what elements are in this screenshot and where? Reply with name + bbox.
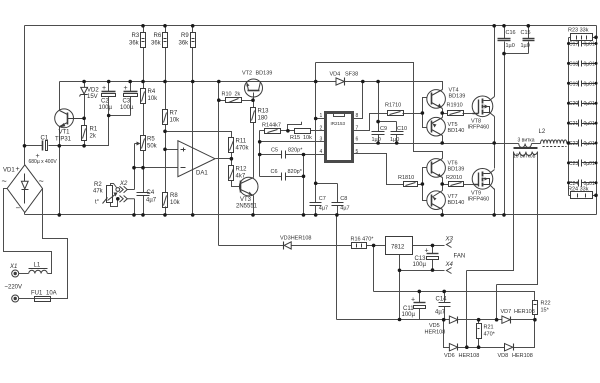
svg-text:X2: X2 [119,181,128,187]
wire R17 to VT4/VT5 bases [403,98,427,128]
node C5 right [302,153,306,157]
svg-text:1µ0: 1µ0 [521,43,530,49]
wire R6 leads [165,26,167,82]
node +15 C2 [107,80,111,84]
svg-text:C5: C5 [271,148,278,154]
capacitor C2 [102,92,116,97]
svg-text:C9: C9 [380,126,387,132]
svg-text:VT1: VT1 [59,130,71,136]
svg-text:+: + [102,85,106,92]
svg-text:VD1: VD1 [3,168,15,174]
wire pin5 jog to R18 [353,154,404,185]
svg-text:IRFP460: IRFP460 [468,125,490,131]
capacitor C23 [569,160,597,167]
wire R7 to R11 [166,132,232,138]
svg-text:~: ~ [2,176,7,186]
wire doubler bottom line [444,320,535,348]
svg-text:36k: 36k [151,41,162,47]
wire R7/R8 chain [165,82,167,215]
wire VB to C9/C10 bracket [379,82,397,132]
wire bridge bottom to ground rail [24,213,26,215]
resistor R6 [163,33,168,48]
inductor L1 [29,270,48,273]
svg-text:4µ7: 4µ7 [340,206,349,212]
wire R14 left vertical [260,131,265,177]
node doubler sec left [465,345,469,349]
svg-text:C21: C21 [569,121,578,127]
node Vcc pin1 [314,80,318,84]
svg-text:C6: C6 [271,169,278,175]
node R10 left [217,98,221,102]
transistor VT3 [239,177,258,196]
svg-text:820p*: 820p* [288,148,303,154]
wire secondary left / jog to doubler [467,152,514,348]
node bank C17 left [567,42,570,45]
svg-text:X1: X1 [9,264,17,270]
wire +15 to VD3 vertical x219 [218,82,220,246]
svg-text:4µ7: 4µ7 [435,310,446,316]
inductor L2 core dashes [543,146,567,148]
svg-text:100µ: 100µ [413,262,427,268]
node R24 right [594,194,598,198]
svg-text:BD140: BD140 [448,128,465,134]
svg-text:0µ01: 0µ01 [584,81,595,87]
wire right-side rail down [596,26,598,215]
svg-text:10A: 10A [46,291,57,297]
zener diode VD2 [80,87,88,96]
wire R22 bottom lead [534,315,536,320]
diode VD3 [284,242,292,250]
resistor R12 [229,166,234,181]
wire VT9 source [494,189,496,215]
wire VT3 emitter [253,196,255,215]
thermo mark of R2 [103,198,108,204]
node top rail VT8 drain [492,24,496,28]
svg-text:0µ01: 0µ01 [584,161,595,167]
svg-text:470k: 470k [236,146,250,152]
wire ground link to doubler [336,215,338,320]
svg-text:VT3: VT3 [240,197,252,203]
svg-text:VD8: VD8 [498,353,509,359]
wire R2 bottom lead [111,199,118,207]
node C1 left [23,144,27,148]
node VB pin8 [361,80,365,84]
svg-text:+: + [16,166,20,173]
svg-text:~: ~ [39,176,44,186]
node 7812 gnd bottom [398,318,402,322]
wire VT7 emitter [442,185,444,191]
node bank C22 right [595,142,598,145]
wire R19 leads [443,113,473,115]
wire VT1 collector [59,82,61,111]
svg-text:47k: 47k [93,189,104,195]
svg-text:0µ01: 0µ01 [584,42,595,48]
node VS L2 C22 [567,141,571,145]
svg-text:10 витков: 10 витков [513,154,536,160]
capacitor C9 [372,132,385,135]
svg-text:HER108: HER108 [512,353,533,359]
wire VT8 drain [494,26,496,97]
wire VT1 emitter [59,127,61,146]
svg-text:1µ0: 1µ0 [390,137,399,143]
svg-text:IRFP460: IRFP460 [468,197,490,203]
svg-text:180: 180 [258,116,269,122]
wire C13 leads [432,246,434,271]
node VS VT5 [440,141,444,145]
svg-text:R24 33k: R24 33k [568,187,589,193]
resistor R16 [352,243,367,249]
wire ground rail [25,214,597,216]
capacitor C21 [569,120,597,127]
wire ground drop x59 [59,146,61,215]
svg-text:L1: L1 [34,263,41,269]
svg-text:10k: 10k [170,200,181,206]
svg-text:6: 6 [356,136,359,142]
wire R14 to R15 [281,130,295,132]
transistor VT7 [427,191,446,210]
node VD3 R16 7812 [372,244,376,248]
node doubler R21 bottom [477,345,481,349]
svg-text:1µ0: 1µ0 [372,137,381,143]
wire R4/R5/C4 chain [143,82,145,215]
wire VT3 collector / R13 [253,101,255,178]
resistor R14 [265,129,281,134]
capacitor C13 [427,254,439,260]
svg-text:2N5551: 2N5551 [236,204,258,210]
capacitor C10 [391,132,404,135]
svg-text:VD5: VD5 [429,323,440,329]
svg-text:2: 2 [320,125,323,131]
node pin1 line [314,117,318,121]
svg-text:R10: R10 [222,92,232,98]
svg-text:100µ: 100µ [99,105,113,111]
svg-text:0µ01: 0µ01 [584,141,595,147]
diode VD8 [505,344,514,351]
resistor R11 [229,138,234,153]
wire doubler top line [337,319,535,321]
node top rail R9 [191,24,195,28]
svg-text:C17: C17 [569,42,578,48]
wire secondary right / jog to doubler [497,152,538,320]
wire DA1 output [216,158,232,160]
svg-text:10k: 10k [148,96,159,102]
svg-text:BD139: BD139 [448,167,465,173]
wire 7812 output / X3 [413,245,445,247]
node bank C18 left [567,62,570,65]
wire L1 to X1 [19,273,29,275]
wire bridge AC right to fuse [19,189,68,299]
transistor VT5 [427,117,446,136]
resistor R3 [141,33,146,48]
transistor VT6 [427,159,446,178]
IC IR2153 [326,113,353,162]
svg-text:C23: C23 [569,161,578,167]
connector X4 chevron [447,268,452,274]
node gnd C16 [502,213,506,217]
svg-text:VD3HER108: VD3HER108 [280,236,312,242]
op-amp DA1 [178,141,215,177]
svg-text:100µ: 100µ [402,312,416,318]
node bank C23 left [567,161,570,164]
svg-text:7: 7 [356,125,359,131]
wiper arrow of R2 [114,193,118,197]
svg-text:C19: C19 [569,81,578,87]
connector X2 socket circle [116,188,120,192]
wire VT5 collector [442,136,444,144]
transformer T1 core [514,148,538,149]
node bank C21 right [595,122,598,125]
wire R12 to VT3 base [232,181,241,187]
node VS C10 [395,141,399,145]
wire R3 leads [143,26,145,82]
wire Vcc loop over chip [316,63,443,159]
node 7812 gnd X4 [398,269,402,273]
svg-text:VD2: VD2 [87,88,99,94]
svg-text:R1710: R1710 [385,103,401,109]
wire VD2/R1 string [84,82,86,146]
wire VT2 base lead [253,93,255,101]
svg-text:680µ x 400V: 680µ x 400V [29,159,58,165]
svg-text:R4: R4 [148,89,156,95]
wire bridge AC left to L1 [4,189,52,274]
svg-text:10k: 10k [303,135,312,141]
node gnd C8 link [335,213,339,217]
node DA1 out [230,157,234,161]
node 7812 out [431,244,435,248]
wire R23 leads [569,37,597,39]
node +15 R7 [163,80,167,84]
svg-text:C7: C7 [319,196,326,202]
resistor R18 [404,182,418,187]
node VS midpoint [492,141,496,145]
wire pin8 to VB rail [353,82,363,119]
capacitor C4 [137,193,150,196]
svg-text:X4: X4 [445,262,454,268]
svg-text:C14: C14 [436,297,448,303]
svg-text:C4: C4 [147,190,155,196]
svg-text:FU1: FU1 [31,291,43,297]
capacitor C14 [439,303,451,307]
capacitor C8 [332,203,344,206]
node gnd x59 [58,213,62,217]
diode VD7 [502,316,511,324]
node R19 left [440,111,444,115]
svg-text:10k: 10k [170,118,181,124]
node bank C24 left [567,181,570,184]
transistor VT4 [427,90,446,109]
connector X2 pin1 chevrons [120,186,128,193]
svg-text:BD139: BD139 [449,94,466,100]
transformer T1 secondary 10 turns [514,152,538,156]
svg-text:470*: 470* [484,332,496,338]
svg-text:VD6: VD6 [444,353,455,359]
wire C5/C6 right vertical [303,155,305,215]
MOSFET VT8 [472,96,494,117]
node doubler R21 top [477,318,481,322]
node VS C9 [376,141,380,145]
capacitor C22 [569,140,597,147]
svg-text:1: 1 [320,113,323,119]
svg-text:C2: C2 [101,99,109,105]
node C16C15 bracket [502,52,506,56]
node minus line C4 [141,166,145,170]
svg-text:R11: R11 [236,139,247,145]
node minus line X2 [132,166,136,170]
svg-text:R6: R6 [154,33,162,39]
potentiometer R2 body [107,186,117,203]
wire C3 top lead [130,82,132,92]
wire C7/C8 bracket and leads [316,184,338,215]
wire VT8 source [494,117,496,144]
resistor R7 [163,110,168,125]
wire VT4 emitter [442,109,444,114]
svg-text:R7: R7 [170,111,178,117]
wire raw+ drop from R16 node [373,246,375,292]
svg-text:HER108: HER108 [459,353,480,359]
node bank C17 right [595,42,598,45]
svg-text:1µ0: 1µ0 [506,43,515,49]
resistor R9 [191,33,196,48]
node R17 bases [421,111,425,115]
wire +310V top rail [25,25,597,27]
svg-text:C20: C20 [569,101,578,107]
resistor R10 [226,98,242,103]
wire R11 to R12 [231,153,233,166]
node gnd VT9 [492,213,496,217]
svg-text:8: 8 [356,113,359,119]
fuse FU1 [35,297,51,302]
svg-text:36k: 36k [129,41,140,47]
diode VD5 [449,316,457,324]
svg-text:VD7: VD7 [501,309,512,315]
diode VD4 [336,78,345,86]
wire C14 leads [444,292,446,320]
svg-text:L2: L2 [539,129,546,135]
node C13 bottom [431,268,435,272]
wire C2 top lead [108,82,110,92]
node raw C11 [418,290,422,294]
svg-text:4: 4 [320,149,323,155]
svg-text:0µ01: 0µ01 [584,181,595,187]
wire VT6 emitter [442,178,444,185]
node C9C10 bracket [376,120,380,124]
svg-text:−: − [16,204,21,213]
node bank C20 left [567,102,570,105]
wire DA1 supply vertical [192,82,194,215]
resistor R21 [477,324,482,339]
svg-text:C16: C16 [506,30,516,36]
node top rail C15 [527,24,531,28]
MOSFET VT9 [472,169,494,190]
wire C16/C15 leads and bracket [505,26,529,54]
svg-text:3 витка: 3 витка [518,138,535,144]
svg-text:HER108: HER108 [514,309,535,315]
svg-text:R15: R15 [290,135,300,141]
node R14 R15 [286,129,290,133]
svg-text:0µ01: 0µ01 [584,61,595,67]
node bank C23 right [595,161,598,164]
node C7C8 top [314,182,318,186]
resistor R23 [571,34,593,41]
svg-text:5: 5 [356,149,359,155]
svg-text:36k: 36k [179,41,190,47]
node gnd DA1 [191,213,195,217]
svg-text:R3: R3 [132,33,140,39]
node doubler sec right [495,318,499,322]
node bank C19 right [595,82,598,85]
resistor R17 [388,111,404,116]
node gnd VT7 [440,213,444,217]
capacitor C20 [569,101,597,107]
svg-text:VT2: VT2 [242,71,252,77]
resistor R19 [448,111,464,116]
capacitor C15 [523,39,535,41]
node bank C19 left [567,82,570,85]
wire VT5 emitter [442,114,444,118]
connector X3 chevron [447,242,452,248]
capacitor C3 [124,92,138,97]
node gnd C7 [314,213,318,217]
capacitor C7 [310,203,322,206]
svg-text:C10: C10 [397,126,407,132]
svg-text:~220V: ~220V [5,285,23,291]
svg-text:BD139: BD139 [256,71,273,77]
svg-text:0µ01: 0µ01 [584,101,595,107]
svg-text:R1810: R1810 [398,175,414,181]
capacitor C11 [414,303,426,309]
wire R18 to VT6/VT7 bases [418,168,427,201]
node +15 R9 bottom [191,80,195,84]
svg-text:IR2153: IR2153 [331,121,346,126]
node raw C14 [442,290,446,294]
connector X1 pin1 [12,270,19,277]
node pin4 C5 [258,153,262,157]
node +15 R4 [141,80,145,84]
wire R10 leads [219,100,254,102]
potentiometer R5 [141,136,146,151]
svg-text:R13: R13 [258,109,270,115]
node gnd C6 [302,213,306,217]
node doubler R22 bottom [533,318,537,322]
wire VD3/R16 line [219,245,386,247]
wire C6 line [260,176,304,178]
wire pin1/Vcc vertical x315.7 [315,63,317,184]
wire C9 bottom [378,135,380,144]
wire capacitor bank left rail [568,38,570,196]
node VB C9C10 [376,80,380,84]
svg-text:R16 470*: R16 470* [351,237,375,243]
svg-text:FAN: FAN [454,254,466,260]
wire C11 leads [419,292,421,320]
capacitor C17 [569,41,597,47]
wire C1 line [25,97,131,146]
capacitor C6 [282,173,286,181]
svg-text:820p*: 820p* [288,169,303,175]
node top rail C16 [502,24,506,28]
diode VD6 [449,344,457,351]
node bank C24 right [595,181,598,184]
node R1 bottom [82,144,86,148]
svg-text:R5: R5 [147,137,155,143]
node C6 right [302,175,306,179]
svg-text:3: 3 [320,136,323,142]
capacitor C5 [282,151,286,159]
node VT2 base R13 [251,98,255,102]
resistor R22 [533,301,538,315]
svg-text:BD140: BD140 [448,200,465,206]
node C1 right [58,144,62,148]
wire VT9 drain [494,144,496,169]
